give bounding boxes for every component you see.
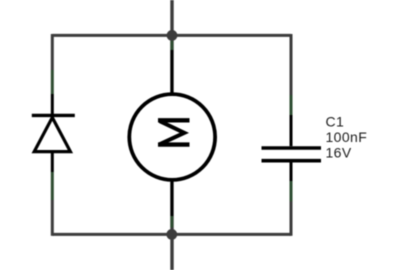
svg-text:C1: C1 bbox=[326, 114, 345, 130]
svg-text:16V: 16V bbox=[326, 145, 352, 161]
svg-text:100nF: 100nF bbox=[326, 129, 368, 145]
